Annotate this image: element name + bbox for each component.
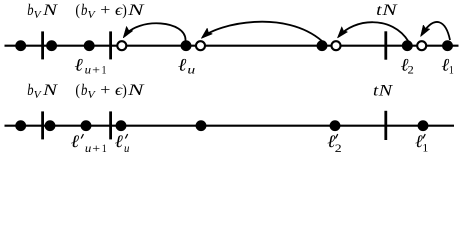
open site 2 (top line)	[196, 41, 205, 50]
svg-text:bVN: bVN	[27, 2, 58, 21]
svg-text:tN: tN	[373, 83, 394, 100]
svg-text:ℓu: ℓu	[178, 54, 195, 76]
tick tN (bottom line)	[384, 111, 387, 140]
svg-text:ℓ1: ℓ1	[442, 54, 454, 76]
open site 1 (top line)	[117, 41, 126, 50]
filled point ell_2 (top line)	[402, 40, 413, 51]
svg-text:ℓ: ℓ	[71, 131, 80, 151]
arrow arc ell_u to open site 1	[124, 23, 185, 41]
filled point ell'_{u+1} (bottom line)	[81, 120, 92, 131]
filled point mid (top line)	[317, 40, 328, 51]
svg-text:bVN: bVN	[27, 82, 58, 101]
tick b_V N (bottom line)	[41, 111, 44, 139]
filled point 1 (top line)	[15, 40, 26, 51]
arrow arc mid point to open site 2	[203, 22, 322, 41]
filled point 2 (top line)	[46, 40, 57, 51]
svg-text:u: u	[124, 141, 129, 155]
filled point 2 (bottom line)	[45, 120, 56, 131]
filled point ell'_u (bottom line)	[116, 120, 127, 131]
tick tN (top line)	[384, 31, 387, 59]
svg-text:(bV+ϵ)N: (bV+ϵ)N	[75, 2, 145, 21]
filled point mid (bottom line)	[196, 120, 207, 131]
arrow arc ell_1 to open site 4	[422, 22, 451, 40]
filled point ell_u (top line)	[181, 40, 192, 51]
filled point ell'_2 (bottom line)	[330, 120, 341, 131]
tick (b_V+eps)N (bottom line)	[109, 111, 112, 139]
top number line	[5, 45, 459, 47]
open site 4 (top line)	[417, 41, 426, 50]
tick (b_V+eps)N (top line)	[109, 31, 112, 59]
arrow arc ell_2 to open site 3	[339, 22, 409, 41]
filled point 1 (bottom line)	[15, 120, 26, 131]
svg-text:tN: tN	[376, 2, 398, 19]
svg-text:ℓ2: ℓ2	[401, 54, 414, 76]
svg-text:u+1: u+1	[85, 141, 107, 155]
bottom number line	[5, 125, 455, 127]
open site 3 (top line)	[332, 41, 341, 50]
filled point ell'_1 (bottom line)	[418, 120, 429, 131]
svg-text:2: 2	[335, 141, 342, 155]
svg-text:(bV+ϵ)N: (bV+ϵ)N	[75, 82, 145, 101]
svg-text:ℓu+1: ℓu+1	[75, 54, 107, 76]
tick b_V N (top line)	[41, 31, 44, 59]
filled point ell_{u+1} (top line)	[84, 40, 95, 51]
filled point ell_1 (top line)	[442, 40, 453, 51]
svg-text:ℓ: ℓ	[115, 131, 124, 151]
svg-text:1: 1	[422, 141, 428, 155]
